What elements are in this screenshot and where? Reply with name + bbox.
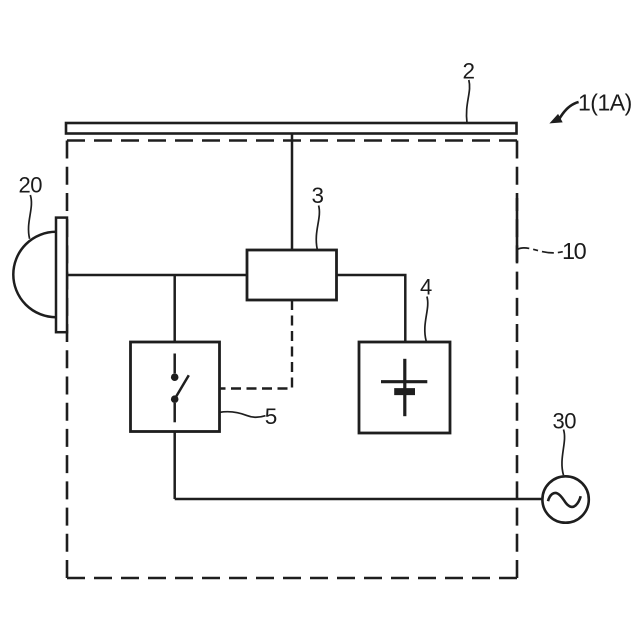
battery B4 symbol [381,359,427,416]
svg-text:3: 3 [312,183,325,208]
leader line for label 5 [219,412,265,418]
leader line for label 3 [316,206,319,250]
leader line for label 10 (dash-dot) [518,248,564,253]
wire (bottom rail to AC source 30) [175,498,544,501]
switch SW5 (box) [131,342,220,432]
arrow for label 1(1A) [551,102,578,123]
leader line for label 2 [466,80,469,123]
battery B4 (box) [359,342,450,433]
wire (switch 5 down to bottom rail) [173,432,176,500]
wire (box 3 to battery 4) [337,275,406,342]
svg-text:5: 5 [265,404,278,429]
AC source 30 [542,476,588,522]
leader line for label 4 [425,297,428,342]
svg-text:2: 2 [463,58,476,83]
svg-text:4: 4 [420,275,432,300]
svg-text:20: 20 [19,173,43,198]
wire (panel 2 to box 3) [291,134,294,251]
leader line for label 20 [29,195,32,239]
panel 2 (top bar) [66,123,517,134]
svg-text:10: 10 [562,238,587,264]
sensor 20 mount bar [56,218,67,333]
sensor 20 dome [13,232,56,317]
wire (sensor 20 to box 3, horizontal) [67,274,247,277]
svg-text:30: 30 [553,408,577,433]
svg-text:1(1A): 1(1A) [578,90,632,116]
control unit U3 (box 3) [247,250,337,300]
dashed enclosure 10 [67,141,517,579]
switch SW5 symbol [171,354,189,423]
leader line for label 30 [562,430,565,476]
wire (junction down to switch 5) [173,275,176,342]
dashed control line (box 3 to switch 5) [220,300,292,389]
